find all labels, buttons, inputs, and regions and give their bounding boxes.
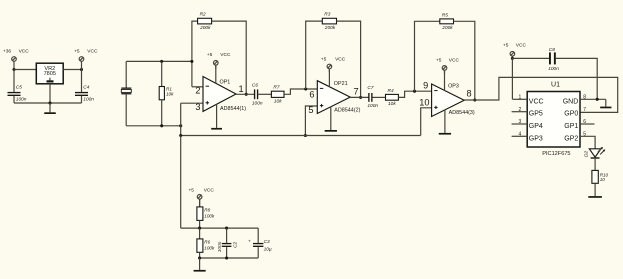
svg-text:OP21: OP21 — [334, 81, 348, 87]
svg-text:VCC: VCC — [449, 58, 460, 64]
wire C8 to GND net — [556, 58, 598, 99]
svg-text:VCC: VCC — [335, 57, 346, 63]
wire OP1 pin 3 input — [181, 102, 203, 104]
resistor R7 10k — [271, 85, 284, 105]
op-amp OP21 AD8544(2) — [317, 69, 360, 114]
wire pin 5 stub to LED — [580, 136, 595, 149]
power terminal +5 (bias) — [189, 188, 215, 207]
svg-text:VCC: VCC — [204, 188, 215, 194]
power terminal VCC OP1 — [207, 52, 231, 69]
junction OP2 feedback node — [304, 87, 307, 90]
junction OP1 output node — [245, 93, 248, 96]
svg-text:GND: GND — [563, 98, 579, 105]
svg-text:C5: C5 — [16, 84, 22, 90]
op-amp OP1 AD8544(1) — [203, 65, 246, 112]
svg-text:VCC: VCC — [87, 49, 98, 55]
svg-text:5: 5 — [583, 131, 586, 137]
ground (power section) — [44, 103, 56, 114]
wire +5 down to pin 1 — [511, 58, 513, 99]
svg-text:VCC: VCC — [19, 49, 30, 55]
wire +36 to VR2 input — [14, 69, 36, 71]
junction +5 PIC node — [511, 57, 514, 60]
capacitor C3 10u (polarized) — [248, 239, 272, 253]
wire +36 down to C5 — [13, 70, 15, 92]
op-amp OP3 AD8544(3) — [432, 70, 475, 116]
wire R7 to OP2 pin 6 — [284, 89, 317, 94]
svg-text:C8: C8 — [549, 47, 555, 53]
svg-text:R4: R4 — [388, 88, 394, 94]
LED D2 — [583, 147, 605, 159]
svg-text:10: 10 — [419, 97, 429, 107]
wire input bottom rail — [126, 125, 181, 127]
wire OP3 output to GP0 — [464, 77, 618, 112]
svg-text:100n: 100n — [252, 100, 263, 106]
junction bias node R8/R6 — [198, 227, 201, 230]
svg-text:7: 7 — [583, 107, 586, 113]
svg-text:10k: 10k — [388, 101, 396, 107]
wire pin 6 stub — [580, 123, 595, 125]
svg-text:VCC: VCC — [516, 43, 527, 49]
svg-text:7: 7 — [354, 87, 359, 97]
wire bias node rail — [181, 227, 259, 229]
pin 2 U1 — [519, 107, 522, 113]
wire +5 to C8 — [512, 57, 549, 59]
capacitor C7 100n — [367, 85, 378, 109]
junction bottom rail C2 — [225, 256, 228, 259]
wire R10 to ground — [594, 183, 596, 196]
svg-text:C7: C7 — [367, 85, 373, 91]
pin 5 — [308, 105, 313, 115]
junction bias node C2 — [225, 227, 228, 230]
pin 5 U1 — [583, 131, 586, 137]
svg-text:7805: 7805 — [44, 71, 56, 77]
wire R4 to OP3 pin 9 — [398, 91, 431, 97]
svg-text:GP0: GP0 — [564, 111, 578, 118]
power terminal VCC OP3 — [436, 58, 460, 74]
ground (OP2) — [325, 107, 337, 132]
junction OP3 output node — [473, 98, 476, 101]
svg-text:9: 9 — [423, 80, 428, 90]
svg-text:OP1: OP1 — [220, 79, 231, 85]
resistor R2 200k — [198, 12, 212, 31]
svg-text:100k: 100k — [204, 213, 215, 218]
junction R1 top — [160, 60, 163, 63]
svg-text:+5: +5 — [321, 57, 327, 63]
svg-text:4: 4 — [519, 131, 522, 137]
pin 9 — [423, 80, 428, 90]
pin 4 U1 — [519, 131, 522, 137]
ground (OP1) — [211, 104, 222, 129]
ground (OP3) — [439, 110, 451, 135]
junction bottom rail R6 — [198, 256, 201, 259]
wire +5 to R8 — [199, 199, 201, 207]
svg-text:D2: D2 — [583, 151, 589, 157]
svg-text:+5: +5 — [503, 43, 509, 49]
ground (LED) — [588, 196, 602, 198]
power terminal VCC OP2 — [321, 57, 346, 73]
capacitor C8 100n — [548, 47, 559, 72]
wire VR2 output to +5 node — [63, 69, 81, 71]
svg-text:3: 3 — [519, 119, 522, 125]
power terminal +36 (VCC) — [3, 49, 29, 70]
resistor R1 10k — [159, 87, 174, 100]
svg-text:GP2: GP2 — [564, 135, 578, 142]
svg-text:AD8544(2): AD8544(2) — [334, 108, 360, 114]
wire R6 to bottom rail — [199, 252, 201, 258]
pin 7 U1 — [583, 107, 586, 113]
wire R5 right lead to output — [454, 21, 475, 100]
svg-text:R7: R7 — [273, 85, 279, 91]
wire pin 2 stub — [512, 111, 528, 113]
ground (bias network) — [194, 258, 206, 272]
svg-text:VCC: VCC — [529, 98, 544, 105]
wire C7 to R4 — [373, 96, 386, 98]
wire OP1 pin 2 input — [192, 86, 203, 88]
svg-text:6: 6 — [583, 119, 586, 125]
pin 10 — [419, 97, 429, 107]
power terminal +5 (VCC) — [74, 49, 98, 70]
svg-text:AD8544(1): AD8544(1) — [220, 106, 246, 112]
pin 6 U1 — [583, 119, 586, 125]
wire bias rail — [181, 135, 421, 137]
wire OP1 output — [236, 93, 254, 95]
power terminal +5 (PIC) — [503, 43, 527, 59]
wire OP2 pin 5 input — [305, 106, 317, 136]
svg-text:GP1: GP1 — [564, 123, 578, 130]
pin 1 — [239, 84, 244, 94]
wire VR2 ground pin — [49, 84, 51, 103]
resistor R6 100k — [197, 239, 215, 252]
junction pin5 to bias rail — [304, 134, 307, 137]
wire ground rail (power section) — [14, 102, 82, 104]
svg-text:100k: 100k — [204, 245, 215, 250]
capacitor C6 100n — [252, 82, 263, 106]
svg-text:R5: R5 — [442, 12, 448, 18]
svg-text:+5: +5 — [207, 52, 213, 58]
svg-text:C4: C4 — [83, 84, 89, 90]
svg-text:100n: 100n — [367, 103, 378, 109]
svg-text:PIC12F675: PIC12F675 — [542, 151, 570, 157]
wire C5 to ground rail — [13, 96, 15, 103]
svg-text:GP5: GP5 — [529, 111, 543, 118]
svg-text:C3: C3 — [264, 239, 270, 245]
svg-text:VCC: VCC — [220, 52, 231, 58]
IC U1 PIC12F675 — [527, 82, 580, 157]
resistor R4 10k — [386, 88, 399, 107]
svg-text:U1: U1 — [551, 82, 560, 89]
capacitor C2 100n — [217, 241, 239, 252]
junction bias rail left — [179, 134, 182, 137]
junction bottom rail to bias — [179, 124, 182, 127]
svg-text:100n: 100n — [217, 241, 223, 252]
junction R1 bottom — [160, 124, 163, 127]
wire pin 8 stub (GND) — [580, 98, 606, 100]
svg-text:6: 6 — [309, 90, 314, 100]
wire +5 down to C4 — [81, 70, 83, 92]
svg-text:100n: 100n — [548, 66, 559, 72]
wire C6 to R7 — [258, 93, 271, 95]
svg-text:R3: R3 — [324, 12, 330, 18]
pin 6 — [309, 90, 314, 100]
svg-text:OP3: OP3 — [448, 83, 459, 89]
wire R1 top lead — [161, 61, 163, 86]
wire R2 left lead — [192, 21, 198, 87]
junction +36 node — [12, 68, 15, 71]
capacitor C4 100n — [75, 84, 94, 102]
svg-text:C2: C2 — [233, 241, 239, 247]
svg-text:+5: +5 — [189, 188, 195, 194]
wire C3 top lead — [257, 228, 259, 243]
wire bias bottom rail — [200, 257, 259, 259]
junction VR2 ground — [48, 101, 51, 104]
svg-text:GP3: GP3 — [529, 135, 543, 142]
wire C2 bottom lead — [226, 247, 228, 258]
wire C3 bottom lead — [257, 247, 259, 258]
resistor R5 200k — [440, 12, 454, 31]
wire bias to R6 — [199, 228, 201, 239]
crystal X1 (piezo sensor) — [121, 61, 131, 125]
svg-text:+5: +5 — [74, 49, 80, 55]
svg-text:10: 10 — [600, 177, 606, 182]
svg-text:R2: R2 — [200, 12, 206, 18]
wire OP2 output — [350, 96, 368, 98]
wire R3 left lead — [306, 21, 323, 89]
wire R1 bottom lead — [161, 100, 163, 126]
wire bias drop — [180, 136, 182, 229]
svg-text:100n: 100n — [16, 97, 27, 103]
wire R8 to bias node — [199, 220, 201, 228]
svg-text:1: 1 — [519, 94, 522, 100]
resistor R8 100k — [197, 207, 215, 221]
svg-text:+36: +36 — [3, 49, 11, 55]
svg-text:AD8544(3): AD8544(3) — [449, 110, 475, 116]
svg-text:10µ: 10µ — [264, 246, 272, 252]
svg-text:200k: 200k — [324, 25, 336, 31]
svg-text:GP4: GP4 — [529, 123, 543, 130]
svg-text:3: 3 — [195, 102, 200, 112]
junction OP3 feedback node — [413, 90, 416, 93]
svg-text:5: 5 — [308, 105, 313, 115]
pin 7 — [354, 87, 359, 97]
wire R3 right lead to output — [337, 21, 361, 97]
pin 1 U1 — [519, 94, 522, 100]
wire C4 to ground rail — [81, 96, 83, 103]
svg-text:200k: 200k — [441, 25, 453, 31]
svg-text:100n: 100n — [83, 97, 94, 103]
pin 8 — [467, 88, 472, 98]
svg-text:R6: R6 — [204, 239, 210, 244]
junction OP2 output node — [359, 96, 362, 99]
wire pin 1 stub — [512, 98, 527, 100]
pin 3 — [195, 102, 200, 112]
pin 2 — [195, 86, 200, 96]
wire LED to R10 — [594, 159, 596, 171]
capacitor C5 100n — [8, 84, 27, 102]
wire input top rail — [126, 60, 192, 62]
voltage regulator VR2 7805 — [36, 63, 63, 84]
ground (PIC) — [600, 99, 611, 108]
wire C2 top lead — [226, 228, 228, 243]
svg-text:+5: +5 — [436, 58, 442, 64]
junction input rail / feedback — [190, 60, 193, 63]
wire R5 left lead — [415, 21, 440, 91]
resistor R10 10 — [592, 170, 609, 183]
wire R2 right lead to output — [212, 21, 247, 94]
svg-text:200k: 200k — [199, 25, 211, 31]
svg-text:1: 1 — [239, 84, 244, 94]
svg-text:8: 8 — [583, 94, 586, 100]
pin 8 U1 — [583, 94, 586, 100]
wire OP3 pin 10 input — [421, 108, 432, 136]
svg-text:10k: 10k — [274, 98, 282, 104]
junction +5 node — [80, 68, 83, 71]
svg-text:2: 2 — [195, 86, 200, 96]
pin 3 U1 — [519, 119, 522, 125]
resistor R3 200k — [322, 12, 336, 31]
svg-text:10k: 10k — [166, 92, 174, 97]
wire pin 3 stub — [512, 123, 528, 125]
svg-text:R8: R8 — [204, 207, 210, 212]
wire bias vertical (pin3 down) — [180, 103, 182, 135]
svg-text:C6: C6 — [252, 82, 258, 88]
wire pin 4 stub — [512, 135, 528, 137]
svg-text:+: + — [248, 240, 251, 245]
junction C8 / GND pin — [596, 98, 599, 101]
svg-text:2: 2 — [519, 107, 522, 113]
svg-text:8: 8 — [467, 88, 472, 98]
